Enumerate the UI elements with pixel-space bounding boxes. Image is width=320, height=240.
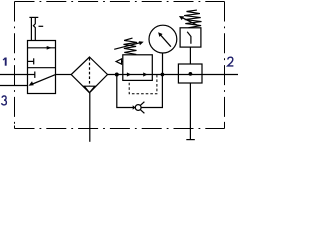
node 2 label [228, 57, 234, 66]
regulator R1 adjustment spring [114, 38, 144, 54]
relief valve RV1 spring [179, 10, 202, 28]
wire relief valve to block [189, 47, 191, 64]
enclosure dash-dot border [15, 2, 225, 129]
valve V1 top position blocked port [28, 58, 34, 64]
valve V1 bottom position blocked port [28, 72, 35, 78]
node junction right of regulator [161, 73, 165, 77]
relief valve RV1 body [180, 28, 201, 47]
check valve CV1 [133, 102, 145, 114]
regulator R1 relief vent triangle [116, 59, 123, 64]
exhaust drain end bar [186, 139, 195, 141]
regulator R1 pilot line (dashed) [129, 75, 157, 94]
filter F1 with water separator [71, 57, 107, 93]
node 1 label [3, 58, 6, 66]
regulator R1 body [123, 55, 153, 81]
distribution block B1 [178, 64, 202, 83]
wire block exhaust drain [189, 83, 191, 140]
regulator R1 flow arrows [127, 72, 148, 76]
valve V1 (3/2-way shut-off) body [28, 41, 56, 94]
valve V1 top position flow arrow [28, 46, 56, 50]
node junction in block [189, 72, 193, 76]
pressure gauge G1 [149, 25, 177, 53]
pressure gauge G1 stem [162, 53, 164, 74]
check valve bypass wire left leg [117, 75, 136, 108]
valve V1 manual actuator (push-pull with detent) [29, 17, 43, 40]
wire port 3 [0, 85, 28, 87]
node 3 label [2, 96, 7, 105]
filter F1 condensate drain line [89, 93, 91, 142]
wire valve to filter [56, 74, 72, 76]
node junction left of regulator [115, 73, 119, 77]
wire port 1 [0, 74, 28, 76]
valve V1 bottom position exhaust path 2->3 [29, 75, 56, 86]
wire filter to port 2 [108, 74, 239, 76]
relief valve RV1 flow path [187, 32, 191, 44]
check valve bypass wire right leg [141, 75, 162, 108]
